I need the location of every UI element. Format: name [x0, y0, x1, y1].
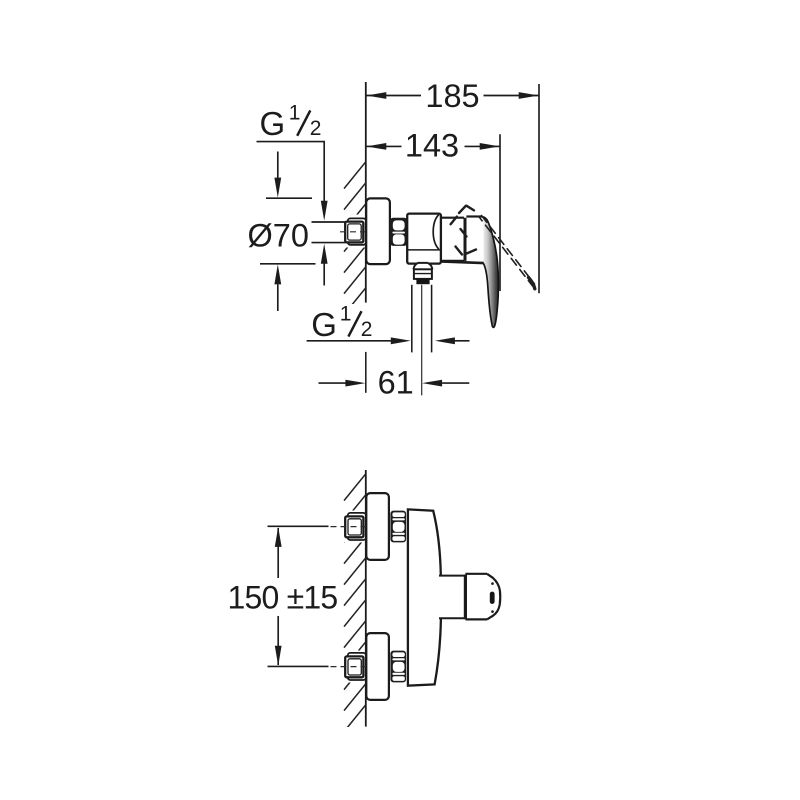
- dimension 143: [366, 128, 500, 164]
- dimension 185: [366, 78, 539, 114]
- svg-text:2: 2: [310, 117, 322, 140]
- dashed raised lever top view: [451, 206, 535, 289]
- lever blade top view: [482, 217, 499, 328]
- upper union connector bottom view: [390, 511, 406, 543]
- wire wall line top view: [365, 82, 367, 303]
- extension lines inlet thread: [312, 222, 346, 286]
- svg-text:2: 2: [361, 318, 373, 341]
- svg-text:Ø70: Ø70: [248, 217, 309, 253]
- wall hatching bottom view: [344, 474, 366, 732]
- label diameter 70: [248, 152, 316, 312]
- label G 1/2 lower: [307, 302, 470, 344]
- lower inlet fitting bottom view: [331, 653, 367, 680]
- svg-text:61: 61: [378, 365, 414, 401]
- wall hatching top view: [344, 162, 366, 336]
- lower union connector bottom view: [390, 651, 406, 683]
- outlet top view: [413, 263, 432, 284]
- body bottom edge top view: [440, 261, 484, 263]
- spout bottom view: [439, 574, 500, 620]
- extension line 143: [499, 134, 501, 291]
- body bottom view: [408, 509, 441, 685]
- svg-text:G: G: [311, 306, 337, 343]
- svg-text:1: 1: [340, 302, 352, 325]
- escutcheon top view: [366, 198, 390, 264]
- handle cap top view: [466, 215, 482, 217]
- union nut top view: [390, 218, 407, 246]
- svg-text:1: 1: [289, 101, 301, 124]
- extension line 185: [538, 84, 540, 293]
- dimension 61: [319, 352, 470, 401]
- label G 1/2 top: [257, 101, 328, 220]
- dimension 150 plus-minus 15: [228, 526, 338, 666]
- wire wall line bottom view: [365, 470, 367, 727]
- svg-text:185: 185: [425, 78, 479, 114]
- cartridge ring top view: [441, 218, 465, 261]
- svg-text:150 ±15: 150 ±15: [228, 580, 338, 616]
- upper inlet fitting bottom view: [331, 513, 367, 540]
- upper escutcheon bottom view: [366, 493, 389, 560]
- lower escutcheon bottom view: [366, 633, 389, 700]
- inlet fitting top view: [340, 218, 366, 244]
- outlet thread extension lines: [412, 285, 432, 396]
- svg-text:143: 143: [405, 128, 459, 164]
- svg-text:G: G: [260, 105, 286, 142]
- body sleeve top view: [407, 214, 441, 264]
